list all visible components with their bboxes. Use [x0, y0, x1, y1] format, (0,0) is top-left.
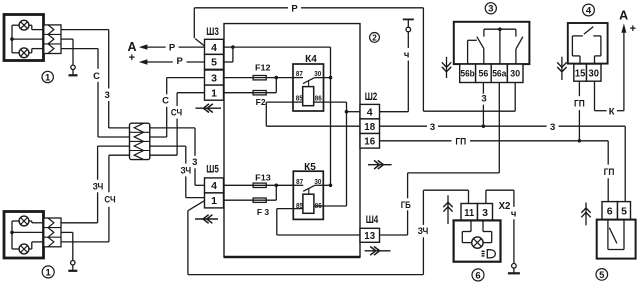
label ch (top)	[404, 50, 410, 61]
label 3 (left)	[105, 90, 110, 101]
relay K5 pin labels	[296, 177, 322, 210]
connector of bottom lamp unit	[44, 218, 61, 247]
relay K4 coil	[293, 87, 324, 106]
connector Sh2 pin 16	[360, 134, 380, 149]
svg-text:85: 85	[296, 94, 303, 103]
node A arrow 1 (to battery +)	[139, 44, 205, 49]
to-other-circuits arrow (left of switch 6)	[443, 195, 452, 224]
mounting block 2 outline	[224, 24, 360, 258]
svg-text:1: 1	[211, 87, 217, 99]
to-other-circuits arrow (left of switch 5)	[581, 203, 590, 226]
svg-text:С: С	[162, 96, 169, 107]
svg-text:Р: Р	[177, 56, 184, 67]
light switch internal bar	[484, 29, 516, 36]
label P (arrow 2)	[177, 56, 184, 67]
connector Sh4 pin 13	[360, 228, 380, 242]
node junction 3-wire / switch pin 56	[482, 124, 486, 128]
svg-text:F12: F12	[255, 63, 271, 73]
svg-text:16: 16	[364, 136, 375, 148]
wire 3 from top unit to harness connector	[61, 30, 130, 128]
ground (bottom lamp unit)	[61, 232, 77, 270]
label GP (at ignition switch)	[574, 99, 585, 110]
node 86-line junction to Sh2 pin 4	[345, 110, 349, 114]
svg-text:3: 3	[211, 72, 217, 84]
ground (rear fog switch circuit)	[508, 264, 520, 274]
wire harness lead-in Sh3	[195, 39, 204, 46]
wire common vertical inside top unit	[11, 25, 13, 53]
wire Sh2 pin 4 to body point (black)	[380, 32, 409, 112]
light switch pin 56a	[491, 64, 507, 82]
svg-text:ЗЧ: ЗЧ	[93, 182, 104, 193]
svg-text:ГП: ГП	[455, 136, 466, 147]
svg-text:3: 3	[481, 93, 486, 104]
to-other-circuits arrow (left of light switch)	[442, 57, 451, 78]
svg-text:87: 87	[296, 177, 303, 186]
svg-text:F2: F2	[256, 97, 266, 107]
svg-text:Ш4: Ш4	[366, 214, 379, 226]
svg-text:5: 5	[621, 205, 627, 217]
fuse F13	[253, 172, 271, 187]
svg-text:F13: F13	[255, 172, 271, 182]
svg-text:СЧ: СЧ	[104, 194, 115, 205]
wire SCh from harness connector to Sh3 pin 1	[150, 93, 205, 156]
fuse F12	[253, 63, 271, 80]
node K4 pin 30 junction	[329, 76, 333, 80]
svg-text:+: +	[630, 23, 636, 35]
fuse F3	[253, 198, 269, 217]
label 3 (wire, right of switch)	[550, 122, 555, 133]
svg-text:Ш3: Ш3	[206, 26, 219, 38]
label SCh (left)	[104, 194, 115, 205]
ignition switch pin 30	[587, 64, 602, 81]
label C (right)	[162, 96, 169, 107]
svg-text:4: 4	[211, 180, 217, 192]
connector Sh3 pin 1	[205, 85, 224, 100]
body connection point symbol	[403, 19, 414, 31]
svg-text:3: 3	[488, 4, 493, 15]
label 1 (top lamp unit)	[42, 71, 53, 83]
svg-text:2: 2	[372, 32, 377, 42]
connector Sh2 pin 18	[360, 119, 380, 134]
svg-text:+: +	[129, 52, 135, 64]
svg-text:56b: 56b	[461, 68, 476, 78]
svg-text:К: К	[609, 106, 615, 117]
ignition switch internal left	[572, 36, 583, 64]
rear lamp unit 1 (bottom) housing	[4, 212, 44, 259]
svg-text:87: 87	[296, 69, 303, 78]
switch 5 pin 5	[618, 202, 631, 220]
label ZCh (left)	[93, 182, 104, 193]
connector Sh5 pin 4	[205, 178, 224, 193]
svg-text:4: 4	[211, 42, 217, 54]
label K (wire)	[609, 106, 615, 117]
wire GP up to ignition switch pin 15	[578, 81, 580, 141]
relay K4	[293, 54, 324, 111]
light switch pin 56	[476, 64, 492, 82]
svg-text:СЧ: СЧ	[171, 108, 182, 119]
switch 5 contact	[608, 220, 624, 250]
wire Sh3 pin 1 to F2	[224, 78, 276, 93]
svg-text:1: 1	[45, 72, 51, 83]
harness connector block	[130, 123, 150, 159]
svg-text:ГБ: ГБ	[401, 200, 411, 211]
lamp (switch 6 indicator)	[472, 237, 483, 248]
connector Sh3 pin 3	[205, 70, 224, 85]
connector Sh2 pin 4	[360, 104, 380, 119]
lamp (bottom unit, lower bulb)	[19, 244, 29, 254]
svg-text:ЗЧ: ЗЧ	[418, 226, 429, 237]
connector continuation symbol Sh4	[365, 247, 391, 256]
wire 3 from Sh2 pin 18 to light switch and switch 5	[380, 126, 626, 201]
label X2 (connector)	[499, 200, 511, 212]
svg-text:13: 13	[364, 230, 375, 242]
svg-text:1: 1	[211, 195, 217, 207]
label 3 (light switch)	[485, 3, 496, 15]
node K5 pin 30 junction	[329, 184, 333, 188]
svg-text:ЗЧ: ЗЧ	[181, 165, 192, 176]
ground (top lamp unit)	[61, 39, 78, 75]
wire P battery feed rail	[194, 8, 515, 111]
rear fog icon	[482, 250, 496, 258]
svg-text:6: 6	[607, 205, 613, 217]
svg-text:3: 3	[482, 207, 488, 219]
svg-text:3: 3	[105, 90, 110, 101]
light switch contact 56 blade	[477, 37, 484, 64]
wire Sh5 pin 1 to F3	[224, 185, 276, 200]
wire relay coils 86 common	[323, 102, 360, 206]
svg-text:6: 6	[475, 270, 480, 281]
wire harness from Sh5 pin 1 to rear-fog switch	[188, 201, 424, 275]
rear fog switch 6 housing	[454, 220, 501, 261]
node A arrow 2 (to battery +)	[139, 59, 205, 64]
label 4 (ignition switch)	[583, 4, 595, 16]
light switch contact 30 blade	[516, 37, 523, 64]
wire SCh from bottom unit to harness connector	[61, 155, 130, 242]
ignition switch internal right	[593, 36, 601, 64]
svg-text:56: 56	[479, 68, 489, 78]
svg-text:Ш2: Ш2	[365, 91, 378, 103]
wire C from harness connector to Sh3 pin 3	[150, 78, 205, 137]
ignition switch pin 15	[574, 64, 587, 81]
connector Sh2 label	[365, 91, 378, 103]
connector of top lamp unit	[44, 25, 61, 54]
wire common vertical inside bottom unit	[11, 221, 13, 249]
label 6 (rear fog switch)	[472, 269, 484, 281]
wire lower bulb leads (bottom unit)	[12, 242, 44, 249]
rear fog switch 6 pin 11	[461, 204, 478, 221]
wire upper bulb leads	[12, 25, 44, 29]
svg-text:3: 3	[550, 122, 555, 133]
lamp (top unit, upper bulb)	[19, 20, 29, 30]
wire Sh3 pin 3 to F12 to relay K4 pin 87	[224, 77, 293, 79]
node bar junction 56a	[498, 27, 502, 31]
wire K5 pin 85 to Sh4 pin 13	[277, 209, 360, 235]
relay K5 contact	[293, 185, 330, 193]
svg-text:Ш5: Ш5	[206, 163, 219, 175]
wire ZCh from harness connector to Sh5 pin 1	[150, 146, 205, 198]
node junction F12/F2 output	[275, 76, 279, 80]
label SCh (right)	[171, 108, 182, 119]
light switch lead 56a	[499, 29, 501, 64]
wire 3 from harness connector to Sh5 pin 4	[150, 128, 205, 185]
svg-text:15: 15	[575, 67, 586, 79]
connector Sh3 pin 4	[205, 39, 224, 54]
wire middle pin lead (bottom unit)	[12, 231, 44, 233]
relay K4 pin labels	[296, 69, 322, 102]
label GB (wire)	[401, 200, 411, 211]
label P (top rail)	[291, 3, 298, 14]
svg-text:18: 18	[364, 121, 375, 133]
wire K4 pin 85 to Sh2 pin 18	[266, 102, 360, 126]
wire Sh3 pins 4/5 to relay contacts 30	[224, 47, 331, 185]
wire ZCh from bottom unit to harness connector	[61, 146, 130, 223]
fuse F2	[253, 91, 266, 107]
connector Sh4 label	[366, 214, 379, 226]
label GP (at switch 5)	[604, 167, 615, 178]
label 1 (bottom lamp unit)	[42, 266, 54, 278]
svg-text:30: 30	[589, 67, 600, 79]
outside-lighting switch 5 housing	[597, 220, 636, 259]
wire GP from Sh2 pin 16	[380, 141, 609, 202]
svg-text:3: 3	[192, 157, 197, 168]
label C (left)	[93, 71, 100, 82]
wire K from ignition pin 30 to battery	[595, 33, 624, 111]
svg-text:30: 30	[510, 68, 520, 78]
connector Sh3 label	[206, 26, 219, 38]
node A arrow (to battery +, right)	[621, 23, 626, 32]
wire Sh5 pin 4 to F13 to relay K5 pin 87	[224, 184, 293, 186]
to-other-circuits arrow (left of ignition switch)	[557, 57, 566, 80]
svg-text:ГП: ГП	[574, 99, 585, 110]
label A (battery, right)	[619, 8, 636, 34]
svg-text:86: 86	[315, 94, 322, 103]
svg-text:ч: ч	[404, 50, 410, 61]
svg-text:4: 4	[367, 106, 373, 118]
label 2 (mounting block)	[370, 32, 380, 42]
label 5 (switch)	[596, 269, 608, 281]
wire lower bulb leads	[12, 49, 44, 53]
svg-text:F 3: F 3	[257, 207, 270, 217]
wire C from top unit to harness connector	[61, 49, 130, 137]
svg-text:Р: Р	[291, 3, 298, 14]
svg-text:3: 3	[430, 122, 435, 133]
lamp (top unit, lower bulb)	[19, 48, 29, 58]
label P (arrow 1)	[169, 43, 176, 54]
svg-text:ч: ч	[511, 209, 517, 220]
relay K5 coil	[293, 194, 323, 213]
svg-text:30: 30	[314, 69, 321, 78]
svg-text:Р: Р	[169, 43, 176, 54]
connector continuation symbol Sh2	[368, 160, 392, 169]
svg-text:А: А	[619, 8, 628, 22]
rear fog switch 6 pin 3	[478, 204, 493, 221]
svg-text:4: 4	[586, 5, 592, 16]
connector Sh3 pin 5	[205, 54, 224, 69]
label A (battery, left)	[127, 40, 136, 64]
rear fog switch internal leads	[462, 220, 491, 242]
svg-text:1: 1	[46, 267, 52, 278]
label ZCh (at switch 6)	[418, 226, 429, 237]
svg-text:56a: 56a	[492, 68, 506, 78]
node junction GP / ignition feed	[578, 139, 582, 143]
label 3 (at switch 56)	[481, 93, 486, 104]
ignition switch blade	[584, 27, 594, 35]
connector continuation symbol Sh3	[196, 104, 222, 113]
label 3 (right)	[192, 157, 197, 168]
label ZCh (right)	[181, 165, 192, 176]
relay K4 contact	[293, 78, 331, 86]
svg-text:С: С	[93, 71, 100, 82]
node junction pins 4-5	[231, 45, 235, 49]
label GP (wire)	[455, 136, 466, 147]
rear lamp unit 1 (top) housing	[4, 15, 44, 61]
svg-text:30: 30	[314, 177, 321, 186]
svg-text:5: 5	[211, 57, 217, 69]
wire ch rear fog switch pin 3 to ground	[486, 190, 514, 263]
svg-text:11: 11	[464, 207, 474, 219]
label 3 (wire, left of switch)	[430, 122, 435, 133]
node junction F13/F3 output	[275, 184, 279, 188]
svg-text:5: 5	[599, 270, 605, 281]
connector Sh5 pin 1	[205, 193, 224, 208]
wire ZCh rear fog switch pin 11 to harness	[423, 190, 468, 274]
wire upper bulb leads (bottom unit)	[12, 221, 44, 223]
lamp (bottom unit, upper bulb)	[19, 216, 29, 226]
ignition switch housing	[568, 23, 608, 64]
node common junction (bottom unit)	[10, 231, 14, 235]
wire Sh4 pin 13 to switch pin 56a (GB)	[380, 83, 500, 236]
svg-text:ГП: ГП	[604, 167, 615, 178]
relay K5	[293, 162, 323, 220]
connector continuation symbol Sh5	[195, 215, 218, 224]
connector Sh5 label	[206, 163, 219, 175]
light switch 3 housing	[454, 22, 530, 64]
label ch (at switch 6)	[511, 209, 517, 220]
light switch contact 56b fixed	[468, 40, 477, 64]
light switch pin 30	[507, 64, 523, 82]
svg-text:Х2: Х2	[499, 200, 511, 212]
switch 5 pin 6	[602, 202, 618, 220]
wire middle pin lead	[12, 38, 44, 40]
wire light switch 56 down to 3-wire	[482, 83, 484, 127]
light switch pin 56b	[460, 64, 476, 82]
node common junction (top unit)	[10, 37, 14, 41]
